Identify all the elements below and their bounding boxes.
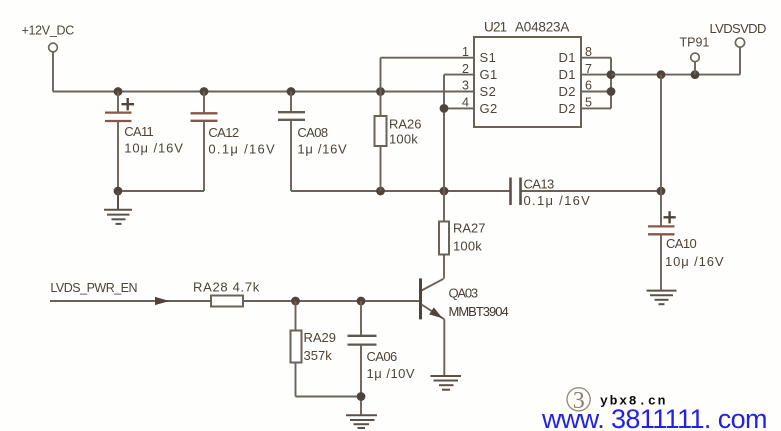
svg-text:CA12: CA12 — [208, 125, 238, 140]
wire pin5 D2 — [581, 107, 611, 109]
svg-text:100k: 100k — [453, 239, 482, 254]
wire gate net left segment — [291, 190, 510, 192]
svg-text:D1: D1 — [559, 67, 576, 82]
svg-text:www. 3811111. com: www. 3811111. com — [541, 404, 767, 431]
ground under QA03 — [431, 376, 462, 390]
svg-text:CA08: CA08 — [297, 125, 327, 140]
svg-text:6: 6 — [585, 79, 592, 93]
capacitor CA11 — [105, 92, 184, 192]
svg-text:10μ /16V: 10μ /16V — [124, 141, 184, 156]
wire vdd vertical — [660, 75, 662, 191]
svg-text:1μ /16V: 1μ /16V — [297, 141, 347, 156]
resistor RA29 — [291, 301, 337, 397]
svg-text:3: 3 — [462, 79, 469, 93]
wire pin6 D2 — [581, 91, 611, 93]
svg-text:RA27: RA27 — [453, 221, 486, 236]
capacitor CA13 — [511, 177, 592, 209]
svg-text:0.1μ /16V: 0.1μ /16V — [524, 193, 592, 208]
svg-text:RA28 4.7k: RA28 4.7k — [193, 280, 260, 295]
node CA11 bottom — [114, 187, 123, 196]
svg-text:CA06: CA06 — [367, 349, 397, 364]
node vdd-CA13 — [657, 187, 666, 196]
terminal +12V_DC — [22, 24, 75, 52]
resistor RA27 — [439, 221, 486, 279]
wire gate vertical G1-G2 — [443, 75, 445, 222]
svg-text:G2: G2 — [480, 101, 498, 116]
node rail-RA26 — [376, 87, 385, 96]
svg-text:D2: D2 — [559, 84, 576, 99]
svg-text:4: 4 — [462, 96, 469, 110]
node rail-CA11 — [114, 87, 123, 96]
svg-text:TP91: TP91 — [680, 36, 710, 50]
resistor RA26 — [375, 58, 422, 191]
node G2 junction — [440, 104, 449, 113]
capacitor CA12 — [191, 92, 277, 192]
resistor RA28 — [193, 280, 260, 307]
wire CA11-CA12 bottom — [118, 190, 204, 192]
svg-text:LVDSVDD: LVDSVDD — [710, 21, 766, 36]
svg-text:S2: S2 — [480, 84, 497, 99]
IC U21 A04823A — [462, 20, 592, 128]
svg-text:2: 2 — [462, 62, 469, 76]
svg-text:1μ /10V: 1μ /10V — [367, 366, 416, 381]
svg-text:A04823A: A04823A — [515, 20, 569, 35]
svg-text:LVDS_PWR_EN: LVDS_PWR_EN — [50, 281, 137, 295]
capacitor CA08 — [278, 92, 347, 192]
svg-text:357k: 357k — [304, 348, 333, 363]
svg-text:CA11: CA11 — [124, 124, 153, 139]
wire RA29 bottom — [296, 396, 362, 398]
svg-text:5: 5 — [585, 96, 592, 110]
svg-text:CA10: CA10 — [666, 236, 696, 251]
node base-CA06 — [357, 297, 366, 306]
node pin7 — [607, 70, 616, 79]
terminal LVDSVDD — [710, 21, 766, 75]
svg-text:0.1μ /16V: 0.1μ /16V — [208, 141, 276, 156]
svg-text:G1: G1 — [480, 67, 498, 82]
node pin6 — [607, 87, 616, 96]
wire LVDS_PWR_EN — [50, 300, 211, 302]
svg-text:100k: 100k — [389, 132, 418, 147]
svg-text:CA13: CA13 — [524, 177, 554, 192]
wire drain vertical — [610, 58, 612, 109]
wire vdd horizontal — [611, 74, 740, 76]
wire +12V top rail — [53, 91, 474, 93]
wire pin4 G2 — [444, 107, 474, 109]
wire pin2 G1 — [444, 74, 474, 76]
node base-RA29 — [291, 297, 300, 306]
svg-text:D2: D2 — [559, 101, 576, 116]
ground under CA10 — [647, 291, 677, 305]
node gate-RA27 — [440, 187, 449, 196]
node vdd-TP91 — [691, 70, 700, 79]
wire pin1 S1 — [381, 57, 475, 59]
svg-text:10μ /16V: 10μ /16V — [665, 254, 725, 269]
svg-text:D1: D1 — [559, 50, 576, 65]
svg-text:RA29: RA29 — [304, 330, 337, 345]
node rail-CA12 — [200, 87, 209, 96]
ground under CA11 — [104, 191, 132, 224]
capacitor CA10 — [648, 191, 725, 290]
svg-text:QA03: QA03 — [449, 286, 478, 301]
wire pin8 D1 — [581, 57, 611, 59]
svg-text:MMBT3904: MMBT3904 — [449, 304, 509, 319]
svg-text:U21: U21 — [484, 20, 507, 35]
wire RA28 to base — [243, 300, 419, 302]
node gate-RA26 — [376, 187, 385, 196]
svg-text:RA26: RA26 — [389, 117, 422, 132]
capacitor CA06 — [348, 301, 416, 415]
node rail-CA08 — [287, 87, 296, 96]
wire pin7 D1 — [581, 74, 611, 76]
arrow on LVDS_PWR_EN — [155, 297, 170, 305]
test point TP91 — [680, 36, 710, 75]
node CA06 bottom — [357, 392, 366, 401]
transistor QA03 — [421, 278, 509, 375]
svg-text:+12V_DC: +12V_DC — [22, 24, 75, 38]
ground under CA06 — [346, 415, 377, 428]
svg-text:1: 1 — [462, 45, 469, 59]
wire gate net right segment — [521, 190, 661, 192]
watermark circled 3 — [567, 388, 590, 414]
svg-text:S1: S1 — [480, 50, 497, 65]
node vdd-CA10 — [657, 70, 666, 79]
wire +12V vertical drop — [52, 52, 54, 92]
